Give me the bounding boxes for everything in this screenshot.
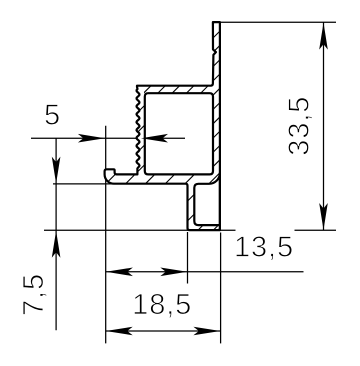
dim 18,5 arrow left [106, 327, 133, 336]
extension line y=183.9 (7,5 top) [53, 183, 112, 185]
dim 13,5 arrow right [160, 268, 187, 277]
dim 13,5 arrow left [106, 268, 133, 277]
dim 18,5 arrow right [193, 327, 220, 336]
dim 33,5 arrow down [319, 203, 328, 230]
dimension line 18,5 [106, 330, 221, 332]
dim 7,5 arrow down [52, 157, 61, 184]
svg-text:13,5: 13,5 [234, 232, 294, 264]
extension line x=105.7 (left) [105, 126, 107, 344]
svg-text:5: 5 [44, 99, 61, 131]
hatch line at foot right corner [212, 223, 222, 233]
dimension line 33,5 [323, 22, 325, 230]
extension line top (33,5) [221, 21, 336, 23]
dim 5 arrow right [78, 134, 105, 143]
svg-text:33,5: 33,5 [284, 96, 316, 156]
extension line bottom (33,5 / 7,5) left part [44, 229, 236, 231]
svg-text:7,5: 7,5 [18, 273, 50, 316]
dim 5 arrow left [141, 134, 168, 143]
bottom box cavity outline [194, 173, 220, 225]
hatch line at arm tip chord [209, 173, 220, 184]
profile body fill [105, 22, 220, 230]
svg-text:18,5: 18,5 [132, 289, 192, 321]
dim 7,5 arrow up [52, 231, 61, 258]
dim 33,5 arrow up [319, 23, 328, 50]
extension line x=187.5 (13,5 right) [187, 232, 189, 284]
C-channel cavity outline [145, 93, 213, 174]
dimension line 5 [31, 137, 185, 139]
dimension line 7,5 [55, 138, 57, 330]
extension line x=220.6 (18,5 right) [220, 233, 222, 344]
extension line bottom right part [295, 229, 337, 231]
profile outline [105, 22, 220, 230]
dimension line 13,5 [106, 271, 304, 273]
